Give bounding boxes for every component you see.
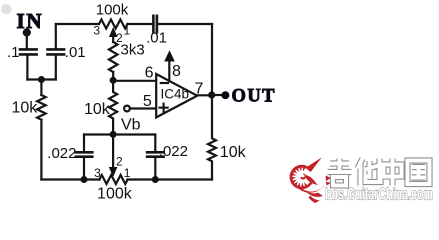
- svg-text:.022: .022: [47, 145, 76, 162]
- wire C .01 left stems: [55, 24, 57, 80]
- op-amp plus sign: [160, 104, 168, 112]
- node junction dot right cap bottom: [152, 176, 159, 183]
- wire output: [197, 94, 212, 96]
- svg-text:100k: 100k: [97, 186, 133, 203]
- svg-text:10k: 10k: [220, 144, 247, 161]
- op-amp minus sign: [161, 82, 168, 84]
- svg-text:.01: .01: [65, 44, 86, 61]
- node B junction dot: [110, 77, 117, 84]
- wire cap to right rail: [158, 23, 212, 25]
- svg-text:6: 6: [145, 65, 154, 82]
- svg-text:1: 1: [124, 166, 131, 180]
- wiper arrow top pot: [109, 27, 118, 37]
- wire pin6 from node B: [113, 80, 156, 82]
- wire left rail upper: [40, 80, 42, 96]
- potentiometer 100k top element: [99, 20, 128, 29]
- svg-text:OUT: OUT: [232, 87, 276, 107]
- svg-text:.01: .01: [146, 30, 167, 47]
- scanner smudge: [1, 4, 12, 14]
- svg-text:5: 5: [143, 93, 152, 110]
- node OUT dot: [221, 91, 229, 99]
- svg-text:3: 3: [93, 24, 100, 38]
- svg-text:2: 2: [116, 155, 123, 169]
- op-amp IC4b: [156, 74, 197, 117]
- node junction dot left cap bottom: [81, 176, 88, 183]
- wire bottom rail: [41, 178, 212, 180]
- resistor 3k3: [109, 42, 118, 72]
- svg-text:Vb: Vb: [121, 117, 141, 134]
- watermark logo dragon: [290, 157, 331, 203]
- wire node A horizontal: [27, 78, 55, 80]
- wiper arrow bottom pot: [109, 167, 118, 177]
- node OUT junction dot on rail: [208, 91, 215, 98]
- resistor 10k left: [37, 95, 46, 120]
- wire wiper to 3k3: [112, 37, 114, 43]
- pin 8 power arrow: [168, 60, 170, 81]
- svg-text:1: 1: [124, 24, 131, 38]
- potentiometer 100k bottom element: [99, 175, 127, 184]
- node Vb junction dot: [110, 131, 117, 138]
- wire wiper stem bottom pot: [112, 134, 114, 167]
- wire top rail right: [128, 23, 153, 25]
- svg-text:3k3: 3k3: [121, 42, 145, 59]
- svg-text:IC4b: IC4b: [161, 87, 190, 102]
- resistor 10k middle: [109, 80, 117, 134]
- capacitor .022 left: [83, 135, 85, 152]
- wire left rail lower: [40, 120, 42, 180]
- wire IN to C .1: [26, 33, 28, 49]
- wire Vb middle horizontal: [84, 133, 155, 135]
- svg-text:.022: .022: [159, 143, 188, 160]
- wire out stub: [212, 94, 222, 96]
- node IN junction dot: [23, 28, 31, 36]
- svg-text:8: 8: [172, 63, 181, 80]
- resistor 10k right: [208, 95, 216, 180]
- capacitor .01 top right: [153, 16, 157, 33]
- svg-text:10k: 10k: [84, 101, 111, 118]
- capacitor .01 left: [48, 49, 65, 54]
- svg-text:100k: 100k: [96, 2, 129, 19]
- svg-text:bbs.GuitarChina.com: bbs.GuitarChina.com: [325, 185, 433, 204]
- capacitor .022 right: [154, 135, 156, 152]
- wire C .1 bottom: [26, 56, 28, 80]
- capacitor .1: [20, 49, 37, 54]
- wire pin5: [130, 107, 156, 109]
- wire top rail: [56, 23, 99, 25]
- svg-text:.1: .1: [7, 44, 20, 61]
- svg-text:3: 3: [94, 166, 101, 180]
- pin 5 open circle terminal: [124, 106, 130, 112]
- node A junction dot: [38, 76, 45, 83]
- svg-text:10k: 10k: [12, 100, 39, 117]
- wire 3k3 to node B: [112, 72, 114, 80]
- wire right rail: [211, 24, 213, 95]
